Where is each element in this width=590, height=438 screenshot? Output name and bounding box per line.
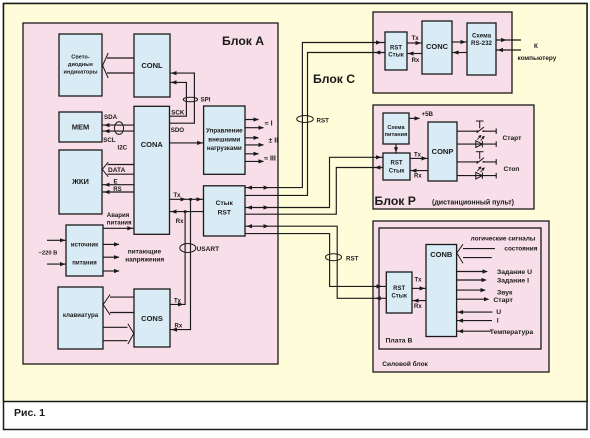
svg-text:U: U (496, 309, 501, 316)
svg-text:состояния: состояния (504, 245, 537, 252)
svg-text:DATA: DATA (108, 167, 126, 174)
svg-text:CONL: CONL (141, 61, 163, 70)
SPI bus marker oval (183, 97, 197, 102)
wire Старт output (457, 298, 486, 300)
wire load output III (pair) (245, 154, 264, 162)
svg-text:Rx: Rx (412, 58, 420, 64)
wire Авария питания to CONA (103, 227, 134, 229)
svg-text:напряжения: напряжения (125, 257, 164, 264)
wire RS-232 to CONC (lower) (452, 52, 467, 54)
svg-text:Рис. 1: Рис. 1 (14, 407, 45, 419)
svg-text:клавиатура: клавиатура (63, 312, 99, 319)
svg-text:Стык: Стык (391, 294, 406, 300)
arrowheads RST A-B at B (375, 284, 382, 300)
svg-text:RS-232: RS-232 (471, 40, 493, 47)
svg-text:Задание I: Задание I (497, 277, 529, 284)
svg-text:Стоп: Стоп (504, 166, 520, 173)
wire CONL to LED indicators (lower) (107, 72, 134, 74)
RST bus marker oval (to Силовой блок) (326, 254, 342, 261)
svg-text:Стык: Стык (388, 52, 403, 58)
wire CONL to LED indicators (upper) (107, 57, 134, 59)
svg-text:RST: RST (218, 210, 232, 217)
svg-text:+5В: +5В (422, 111, 434, 118)
keyboard клавиатура box (58, 287, 103, 349)
junction dots UART (184, 198, 192, 213)
svg-text:питания: питания (385, 132, 408, 138)
svg-text:(дистанционный пульт): (дистанционный пульт) (432, 199, 514, 207)
svg-text:внешними: внешними (208, 136, 240, 143)
interface RST Стык (Блок P) (383, 153, 410, 180)
svg-text:RST: RST (393, 286, 405, 292)
svg-text:Старт: Старт (493, 297, 513, 304)
svg-text:Tx: Tx (412, 36, 420, 42)
wire Температура input (457, 330, 491, 332)
LED indicator Стоп (457, 166, 496, 179)
wire Звук output (457, 289, 482, 291)
power circuit Схема питания (383, 113, 409, 144)
LCD ЖКИ box (59, 150, 102, 214)
wire Схема питания to RST Стык (395, 144, 397, 153)
svg-text:Стык: Стык (389, 168, 404, 174)
LED indicator Старт (457, 135, 496, 148)
wire +5V output (409, 117, 420, 119)
bus arrow into keyboard (103, 295, 110, 315)
interface RST Стык (Силовой блок) (386, 272, 412, 313)
wire I input (457, 320, 492, 322)
svg-text:питания: питания (72, 260, 97, 266)
bus arrow into ЖКИ (102, 162, 108, 177)
wire keyboard to CONS (lower pair line 2) (103, 340, 128, 342)
svg-text:Свето-: Свето- (71, 55, 90, 61)
wire CONC to RST Стык (Rx) (407, 53, 422, 55)
svg-text:Rx: Rx (175, 324, 183, 330)
svg-text:Rx: Rx (176, 219, 184, 225)
wire DATA bus to ЖКИ (upper) (108, 164, 135, 166)
external loads driver box (204, 106, 245, 174)
wire supply output 3 (103, 270, 119, 272)
svg-text:Плата В: Плата В (386, 338, 413, 345)
svg-text:SCL: SCL (103, 137, 116, 144)
svg-text:Tx: Tx (174, 193, 182, 199)
svg-text:SPI: SPI (201, 97, 211, 104)
svg-text:Схема: Схема (472, 33, 492, 40)
svg-text:RST: RST (390, 46, 402, 52)
bus arrow into CONB (457, 244, 463, 263)
svg-text:CONB: CONB (430, 250, 453, 259)
svg-text:Стык: Стык (216, 200, 234, 207)
bus arrow into LED indicators (103, 53, 109, 78)
svg-text:E: E (114, 180, 118, 186)
arrowheads RST A-C at A (247, 186, 270, 190)
controller CONB (426, 245, 457, 337)
wire U input (457, 311, 493, 313)
svg-text:Задание U: Задание U (497, 269, 532, 276)
wire SCK CONL to CONA (170, 82, 187, 116)
svg-text:индикаторы: индикаторы (64, 70, 98, 76)
wire RST link A-C line 1 (245, 43, 385, 188)
controller CONL (134, 34, 170, 97)
svg-text:~220 В: ~220 В (39, 251, 58, 257)
wire keyboard to CONS (lower pair line 1) (103, 326, 128, 328)
wire logic signals into CONB (lower) (463, 257, 492, 259)
svg-text:RS: RS (113, 187, 121, 193)
svg-text:Старт: Старт (503, 135, 523, 142)
controller CONP (428, 122, 457, 181)
wire CONS to keyboard (upper pair line 1) (110, 296, 134, 298)
wire CONC to RS-232 (upper) (452, 41, 467, 43)
wire DATA bus to ЖКИ (lower) (108, 173, 135, 175)
svg-text:питающие: питающие (128, 248, 162, 255)
svg-text:USART: USART (197, 246, 220, 253)
bus arrow into CONS (128, 324, 134, 344)
wire Tx CONA to Стык RST (170, 198, 204, 200)
wire RST link A-C line 2 (245, 53, 385, 196)
wire RST Стык to CONC (Tx) (407, 42, 422, 44)
svg-text:SDO: SDO (171, 127, 185, 134)
svg-text:Блок А: Блок А (222, 34, 264, 48)
I2C bus marker oval (114, 122, 123, 135)
svg-text:I2C: I2C (118, 144, 128, 151)
svg-text:RST: RST (346, 255, 359, 262)
svg-text:Силовой блок: Силовой блок (382, 360, 428, 368)
svg-text:Температура: Температура (490, 329, 534, 336)
controller CONA (134, 106, 170, 234)
svg-text:Tx: Tx (174, 299, 182, 305)
wire Rx CONA from Стык RST (170, 211, 204, 213)
wire RS CONA to ЖКИ (102, 191, 134, 193)
svg-text:RST: RST (391, 161, 403, 167)
svg-text:Схема: Схема (387, 125, 405, 131)
wire supply output 2 (103, 256, 119, 258)
Силовой блок enclosure (373, 221, 549, 372)
arrowheads RST A-C at C (375, 40, 382, 54)
svg-text:компьютеру: компьютеру (518, 55, 557, 62)
Блок A enclosure (23, 23, 278, 364)
svg-text:Звук: Звук (497, 290, 513, 297)
wire RST Стык to CONB (Tx) (412, 287, 426, 289)
svg-text:SDA: SDA (104, 114, 118, 121)
arrowheads RST A-B at A (247, 224, 270, 228)
USART bus marker oval (180, 244, 196, 253)
svg-text:CONC: CONC (426, 42, 449, 51)
svg-text:Rx: Rx (414, 304, 422, 310)
arrowheads into CONL (171, 71, 177, 85)
svg-text:CONS: CONS (141, 314, 163, 323)
pushbutton Стоп (457, 152, 496, 165)
RS-232 driver box (467, 23, 496, 75)
svg-text:питания: питания (107, 220, 132, 227)
svg-text:источник: источник (71, 243, 98, 249)
wire Задание I output (457, 279, 483, 281)
svg-text:логические сигналы: логические сигналы (471, 236, 536, 243)
svg-text:Блок С: Блок С (313, 72, 355, 86)
controller CONS (134, 289, 170, 347)
svg-text:Блок Р: Блок Р (375, 194, 416, 208)
wire RST link A-P line 1 (245, 157, 383, 207)
wire RS-232 output to computer (upper) (496, 39, 521, 41)
svg-text:Tx: Tx (414, 153, 422, 159)
wire SDO CONL to CONA (170, 73, 195, 123)
svg-text:MEM: MEM (72, 123, 90, 132)
svg-text:ЖКИ: ЖКИ (71, 177, 89, 186)
Блок C enclosure (373, 12, 512, 93)
svg-text:± II: ± II (269, 138, 279, 145)
svg-text:CONA: CONA (141, 140, 164, 149)
wire CONS to keyboard (upper pair line 2) (110, 312, 134, 314)
wire load output II (pair) (245, 138, 264, 145)
wire ~220V input (upper) (47, 239, 66, 241)
arrowheads CONS Tx/Rx (172, 302, 184, 331)
board Плата B inner frame (379, 228, 541, 349)
arrowheads RST A-P at P (375, 155, 382, 169)
wire CONA to loads driver (170, 142, 204, 144)
svg-text:Управление: Управление (206, 128, 243, 135)
wire logic signals into CONB (upper) (463, 248, 495, 250)
LED indicators box (59, 34, 102, 96)
controller CONC (422, 21, 452, 74)
wire load output I (pair) (245, 120, 264, 128)
arrowheads RST A-P at A (247, 205, 270, 209)
svg-text:нагрузками: нагрузками (207, 145, 242, 152)
wire SDA MEM to CONA (102, 124, 134, 126)
pushbutton Старт (457, 121, 496, 134)
wire supply output 1 (103, 243, 119, 245)
wire E CONA to ЖКИ (102, 184, 134, 186)
wire SCL MEM to CONA (102, 130, 134, 132)
wire CONS Tx riser (170, 212, 185, 305)
svg-text:диодные: диодные (68, 62, 93, 68)
svg-text:I: I (497, 317, 499, 324)
svg-text:RST: RST (317, 117, 330, 124)
interface RST Стык (Блок C) (385, 32, 407, 70)
RST bus marker oval (to Блок C) (297, 116, 314, 123)
wire CONS Rx riser (170, 199, 191, 329)
power supply box источник питания (66, 225, 103, 276)
svg-text:Rx: Rx (414, 173, 422, 179)
wire RS-232 input from computer (lower) (496, 49, 521, 51)
wire CONP to RST Стык (Rx) (410, 170, 428, 172)
svg-text:Tx: Tx (415, 277, 423, 283)
memory MEM (59, 112, 102, 142)
arrowheads into MEM (104, 123, 110, 133)
svg-text:CONP: CONP (432, 147, 454, 156)
interface Стык RST (Блок A) (204, 186, 246, 236)
wire ~220V input (lower) (47, 263, 66, 265)
wire CONB to RST Стык (Rx) (412, 300, 426, 302)
svg-text:≈ III: ≈ III (264, 156, 276, 163)
svg-text:≈ I: ≈ I (265, 120, 273, 127)
Блок P enclosure (373, 105, 534, 209)
wire RST link A-B line 1 (245, 226, 386, 298)
wire RST Стык to CONP (Tx) (410, 157, 428, 159)
wire RST link A-B line 2 (245, 234, 386, 287)
svg-text:SCK: SCK (171, 109, 185, 116)
svg-text:К: К (534, 43, 538, 50)
wire RST link A-P line 2 (245, 168, 383, 215)
svg-text:Авария: Авария (107, 212, 130, 219)
wire Задание U output (457, 271, 484, 273)
